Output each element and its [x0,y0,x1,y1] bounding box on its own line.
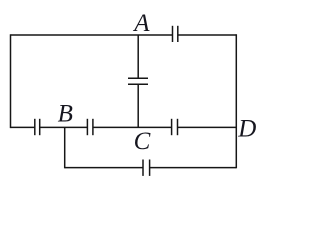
svg-text:B: B [58,100,73,127]
svg-text:A: A [132,10,150,37]
wire: bottom branch right segment [150,167,237,169]
capacitor on bottom branch between B and D [143,160,150,176]
wire: top branch left segment (A to left corner) [11,34,173,36]
wire: left vertical [10,34,12,128]
wire: right vertical [235,34,237,168]
wire: A vertical upper segment [137,35,139,78]
wire: middle row segment left edge to left cap [11,126,35,128]
wire: middle row segment cap to C and C to cap [93,126,172,128]
capacitor on top branch between A and D [173,26,178,42]
wire: bottom branch left segment [65,167,143,169]
wire: middle row segment cap to B and B to cap [40,126,88,128]
wire: middle row segment cap to D [178,126,237,128]
capacitor on middle row left of B [35,119,40,135]
wire: B vertical drop [64,127,66,168]
capacitor between A and C (vertical branch) [128,78,148,84]
capacitor between C and D [172,119,178,135]
svg-text:C: C [134,128,151,155]
wire: A vertical lower segment [137,84,139,127]
svg-text:D: D [237,115,256,142]
capacitor between B and C [87,119,93,135]
wire: top branch right segment (cap to right corner) [178,34,237,36]
